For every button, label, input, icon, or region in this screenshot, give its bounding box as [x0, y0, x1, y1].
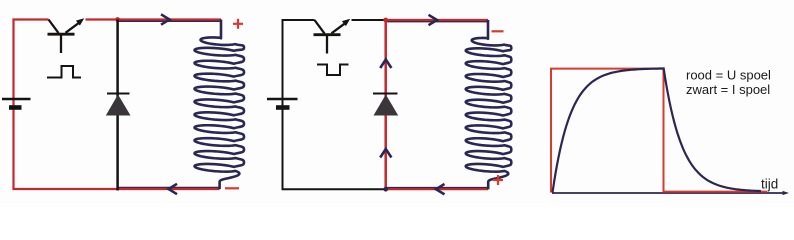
current arrow top right-pointing: [429, 15, 438, 25]
wire left lower red segment: [14, 108, 220, 190]
diode D2 triangle: [374, 95, 399, 116]
minus sign bottom right: [225, 187, 239, 189]
wire left lower black segment: [283, 108, 386, 190]
wire top-left black segment: [283, 20, 315, 108]
wire collector to junction black: [352, 19, 386, 21]
minus sign top right: [492, 30, 504, 32]
wire navy underlay top (coil loop): [386, 20, 488, 22]
svg-text:zwart = I spoel: zwart = I spoel: [686, 82, 770, 97]
wire diode branch (black): [116, 20, 119, 191]
current curve I spoel: [553, 67, 762, 192]
diode D1 triangle: [106, 95, 131, 116]
transistor Q1 collector arrowhead: [76, 18, 84, 25]
svg-text:rood = U spoel: rood = U spoel: [686, 68, 771, 83]
diode D2 cathode bar: [373, 93, 398, 95]
wire navy underlay bottom (coil loop): [386, 187, 489, 189]
axis arrowhead: [783, 191, 790, 195]
wire top red segment to coil: [386, 19, 488, 21]
wire navy underlay top (coil loop): [118, 20, 221, 22]
node junction dot top: [115, 17, 120, 22]
pulse symbol (high pulse): [47, 66, 81, 78]
wire top-left red segment: [14, 20, 49, 108]
current arrow up below diode: [380, 149, 391, 158]
time axis: [552, 192, 786, 194]
node junction dot top: [383, 18, 388, 23]
plus sign top right: [233, 19, 243, 29]
pulse symbol (low pulse): [317, 65, 349, 76]
wire diode branch (red): [384, 20, 387, 189]
inductor L2 coil: [466, 20, 512, 189]
wire bottom red segment to coil: [386, 188, 489, 190]
battery B2: [267, 99, 298, 108]
current arrow up above diode: [380, 60, 391, 69]
transistor Q1: [48, 20, 80, 54]
node junction dot bottom: [383, 187, 388, 192]
red pulse curve U spoel: [551, 69, 767, 193]
plus sign bottom right: [493, 175, 503, 185]
current arrow bottom left-pointing: [436, 184, 445, 194]
svg-text:tijd: tijd: [761, 177, 778, 192]
wire navy underlay bottom (coil loop): [118, 187, 220, 189]
transistor Q2 collector arrowhead: [342, 19, 350, 26]
wire top red segment collector to coil: [86, 18, 222, 20]
battery B1: [2, 99, 31, 108]
diode D1 cathode bar: [107, 93, 130, 95]
inductor L1 coil: [195, 20, 244, 190]
current arrow top right-pointing: [161, 14, 170, 24]
transistor Q2: [314, 20, 346, 54]
current arrow bottom left-pointing: [169, 184, 178, 194]
